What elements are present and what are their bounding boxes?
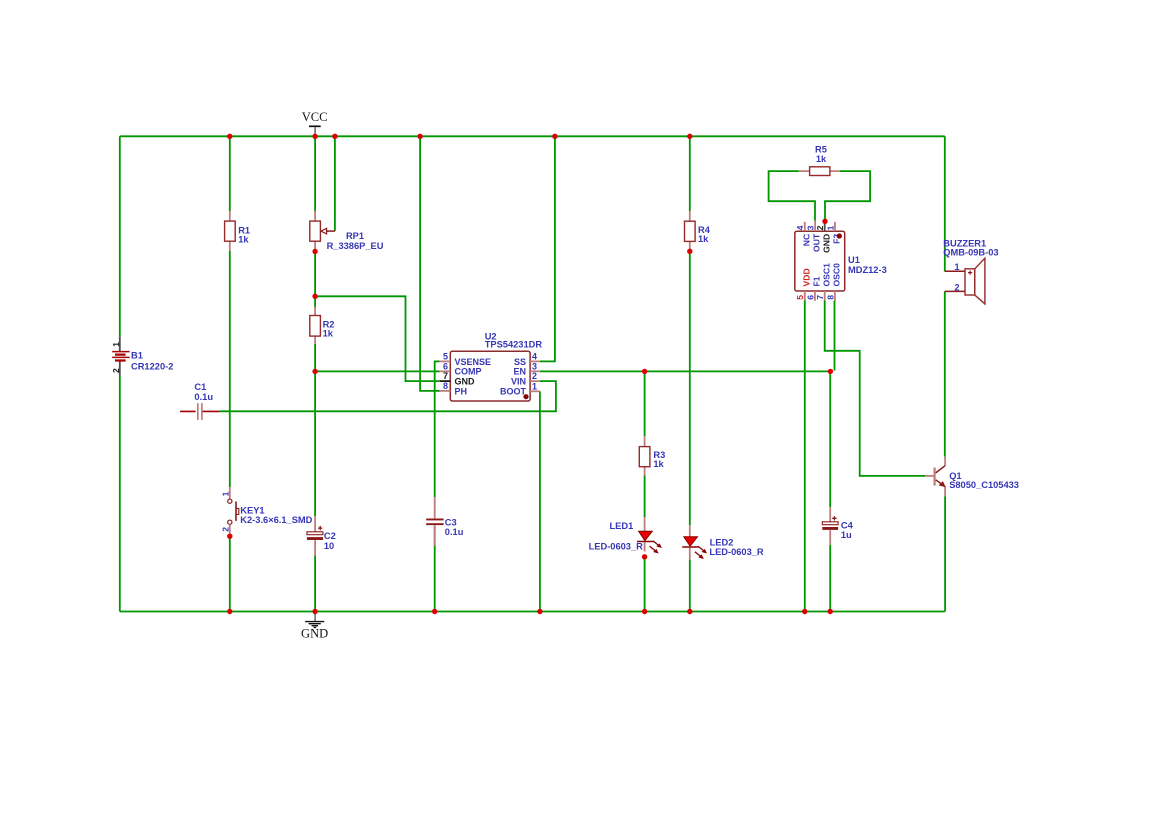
svg-text:SS: SS <box>514 357 526 367</box>
svg-text:KEY1: KEY1 <box>240 506 264 516</box>
junction dot U1 pin2 <box>822 219 827 224</box>
svg-text:S8050_C105433: S8050_C105433 <box>949 480 1019 490</box>
wire VCC column R2 C2 <box>314 136 316 611</box>
svg-text:C1: C1 <box>194 382 206 392</box>
svg-text:3: 3 <box>806 225 816 230</box>
svg-text:C2: C2 <box>324 531 336 541</box>
svg-text:8: 8 <box>825 295 835 300</box>
svg-text:1k: 1k <box>816 154 827 164</box>
svg-text:VIN: VIN <box>511 377 526 387</box>
svg-text:CR1220-2: CR1220-2 <box>131 361 173 371</box>
wire left border <box>119 136 121 611</box>
svg-text:0.1u: 0.1u <box>445 527 464 537</box>
svg-text:6: 6 <box>805 295 815 300</box>
U2 pin 2 VIN <box>530 380 540 382</box>
svg-text:LED2: LED2 <box>710 538 734 548</box>
svg-text:1: 1 <box>111 342 121 347</box>
U1 pin 7 OSC1 <box>824 291 826 301</box>
junction dot RP1 bottom <box>312 249 317 254</box>
LED LED1 <box>589 517 662 554</box>
svg-text:7: 7 <box>815 295 825 300</box>
svg-text:LED-0603_R: LED-0603_R <box>709 547 764 557</box>
wire R4 LED2 column <box>689 136 691 611</box>
capacitor C3 <box>426 497 464 546</box>
battery B1 <box>111 337 173 376</box>
U2 pin 1 BOOT <box>530 390 540 392</box>
svg-text:OSC1: OSC1 <box>821 263 831 287</box>
pushbutton KEY1 <box>221 487 313 533</box>
U1 pin 3 OUT <box>814 221 816 231</box>
svg-text:1k: 1k <box>698 234 709 244</box>
svg-text:GND: GND <box>301 627 328 641</box>
junction dots bottom rail <box>227 609 232 614</box>
svg-text:R5: R5 <box>815 145 827 155</box>
wire VCC to U2 PH <box>420 136 440 391</box>
svg-text:1: 1 <box>825 225 835 230</box>
svg-text:U1: U1 <box>848 255 860 265</box>
svg-text:10: 10 <box>324 541 334 551</box>
resistor R2 <box>310 307 335 344</box>
wire R1 column <box>229 136 231 611</box>
junction node R2 bottom COMP <box>312 369 317 374</box>
IC U2 TPS54231DR <box>450 331 542 401</box>
U2 pin 3 EN <box>530 370 540 372</box>
U1 pin 4 NC <box>804 222 806 231</box>
svg-text:COMP: COMP <box>455 367 482 377</box>
svg-text:B1: B1 <box>131 351 143 361</box>
svg-text:0.1u: 0.1u <box>194 392 213 402</box>
resistor R1 <box>225 211 250 251</box>
svg-text:1: 1 <box>221 491 231 496</box>
svg-text:LED-0603_R: LED-0603_R <box>589 542 644 552</box>
svg-text:OUT: OUT <box>812 233 822 252</box>
svg-text:VDD: VDD <box>802 268 812 286</box>
svg-text:2: 2 <box>815 225 825 230</box>
wire top VCC rail <box>120 135 945 137</box>
svg-text:RP1: RP1 <box>346 231 364 241</box>
wire U2 EN line <box>540 370 830 372</box>
IC U1 MDZ12-3 <box>795 231 887 291</box>
wire U2 VIN to C1 node <box>219 381 556 411</box>
svg-text:QMB-09B-03: QMB-09B-03 <box>943 247 998 257</box>
junction node EN OSC0 C4 <box>828 369 833 374</box>
svg-text:C3: C3 <box>445 517 457 527</box>
svg-text:8: 8 <box>443 381 448 391</box>
wire R3 LED1 column <box>644 371 646 611</box>
wire EN node to C4 <box>829 371 831 611</box>
svg-text:7: 7 <box>443 371 448 381</box>
U1 pin 1 F2 <box>834 222 836 231</box>
svg-text:K2-3.6×6.1_SMD: K2-3.6×6.1_SMD <box>240 515 312 525</box>
svg-text:BOOT: BOOT <box>500 387 527 397</box>
U2 pin 6 COMP <box>440 370 451 372</box>
junction dot LED1 bottom <box>642 554 647 559</box>
svg-text:1k: 1k <box>323 329 334 339</box>
U2 pin 7 GND <box>440 380 451 382</box>
U2 pin 5 VSENSE <box>440 360 451 362</box>
U1 pin 6 F1 <box>814 291 816 301</box>
capacitor C1 <box>180 382 219 420</box>
svg-text:OSC0: OSC0 <box>831 263 841 287</box>
svg-text:VSENSE: VSENSE <box>455 357 492 367</box>
junction dot R4 bottom <box>687 249 692 254</box>
wire RP1 bottom to U2 GND <box>315 296 440 381</box>
svg-text:GND: GND <box>455 377 476 387</box>
junction dots top rail <box>227 134 232 139</box>
wire right border buzzer/Q1 chain <box>944 136 946 611</box>
svg-text:2: 2 <box>532 371 537 381</box>
U2 pin 8 PH <box>440 390 451 392</box>
wire RP1 wiper drop <box>334 136 336 231</box>
svg-text:1k: 1k <box>238 235 249 245</box>
svg-text:3: 3 <box>532 361 537 371</box>
svg-text:4: 4 <box>532 351 537 361</box>
svg-text:R_3386P_EU: R_3386P_EU <box>327 241 384 251</box>
svg-text:4: 4 <box>795 225 805 230</box>
svg-text:5: 5 <box>795 295 805 300</box>
svg-text:GND: GND <box>821 234 831 253</box>
svg-text:LED1: LED1 <box>610 521 634 531</box>
VCC symbol <box>309 125 321 127</box>
wire bottom GND rail <box>120 611 945 613</box>
U2 BOOT marker dot <box>523 394 528 399</box>
svg-text:C4: C4 <box>841 520 854 530</box>
svg-text:6: 6 <box>443 361 448 371</box>
wire R5 right loop to U1 pin2 <box>825 171 870 221</box>
resistor R5 <box>799 145 840 176</box>
svg-text:2: 2 <box>954 282 959 292</box>
U1 pin 5 VDD <box>804 291 806 301</box>
svg-text:MDZ12-3: MDZ12-3 <box>848 265 887 275</box>
buzzer BUZZER1 <box>943 238 998 304</box>
junction dot KEY1 bottom <box>227 534 232 539</box>
svg-text:F1: F1 <box>812 276 822 286</box>
wire R5 left loop to U1 pin3 <box>769 171 815 221</box>
ground GND symbol <box>314 612 316 622</box>
resistor R4 <box>685 211 711 250</box>
wire U1 pin5 VDD to rail <box>804 301 806 612</box>
resistor R3 <box>639 436 665 475</box>
U1 pin 8 OSC0 <box>834 291 836 301</box>
U2 pin 4 SS <box>530 360 540 362</box>
svg-text:1: 1 <box>954 262 959 272</box>
LED LED2 <box>682 525 764 560</box>
wire R2 bottom to U2 COMP <box>315 370 440 372</box>
svg-text:1k: 1k <box>653 459 664 469</box>
wire U2 BOOT to GND rail <box>539 391 541 611</box>
svg-text:EN: EN <box>513 367 526 377</box>
svg-text:1u: 1u <box>841 530 852 540</box>
junction node EN R3 <box>642 369 647 374</box>
capacitor C2 <box>307 516 336 555</box>
svg-text:1: 1 <box>532 381 537 391</box>
wire U2 VSENSE to C3 <box>435 361 440 611</box>
potentiometer RP1 <box>310 211 384 251</box>
svg-text:NC: NC <box>802 234 812 246</box>
wire VCC to U2 SS <box>540 136 555 361</box>
transistor Q1 <box>925 457 1019 497</box>
svg-text:2: 2 <box>111 368 121 373</box>
svg-text:VCC: VCC <box>302 110 328 124</box>
svg-text:2: 2 <box>221 527 231 532</box>
U1 pin 2 GND <box>824 222 826 231</box>
junction node R2 top <box>312 294 317 299</box>
capacitor C4 <box>822 507 853 545</box>
svg-text:PH: PH <box>455 386 468 396</box>
svg-text:TPS54231DR: TPS54231DR <box>485 340 543 350</box>
U1 F2 marker dot <box>837 233 842 238</box>
wire U1 pin7 OSC1 to Q1 base <box>825 301 926 476</box>
svg-text:5: 5 <box>443 351 448 361</box>
wire U1 pin8 OSC0 to EN node <box>834 301 836 371</box>
